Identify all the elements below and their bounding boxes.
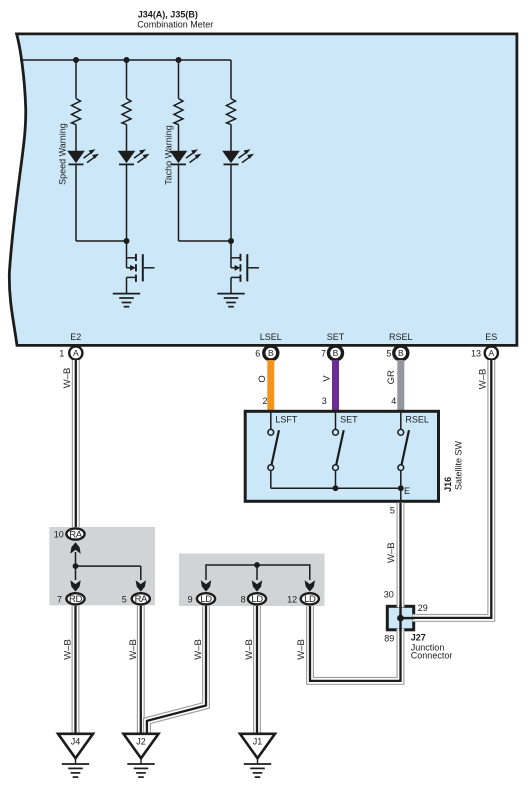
- svg-text:J27: J27: [411, 632, 426, 642]
- wire V (violet) from SET pin 7 to J16: [332, 360, 339, 412]
- arrow down into RD: [70, 580, 80, 591]
- terminal 8 LD: [248, 593, 266, 604]
- svg-text:9: 9: [188, 595, 193, 605]
- wire branch 3 upper: [178, 60, 180, 99]
- node branch 1: [73, 57, 79, 63]
- terminal 12 LD: [301, 593, 319, 604]
- arrow up into RA: [70, 542, 80, 553]
- wire W-B from J27 terminal 89 to connector 12 LD: [310, 606, 401, 681]
- svg-text:8: 8: [241, 595, 246, 605]
- wire RA to tee: [75, 552, 77, 566]
- svg-text:RA: RA: [135, 594, 148, 605]
- pin 1 connector A (E2): [69, 346, 82, 359]
- pin 7 connector B (SET): [329, 346, 343, 360]
- J16 satellite SW box: [245, 411, 438, 501]
- node SET common: [333, 485, 339, 491]
- svg-text:W–B: W–B: [478, 369, 489, 390]
- svg-text:B: B: [398, 348, 404, 358]
- svg-text:4: 4: [391, 396, 396, 406]
- svg-text:5: 5: [386, 348, 391, 358]
- svg-text:13: 13: [471, 348, 481, 358]
- wire tee down: [256, 565, 258, 580]
- wire branch 4 upper: [230, 60, 232, 99]
- LED branch 1 (speed warning): [67, 149, 99, 165]
- svg-text:RSEL: RSEL: [389, 332, 413, 342]
- wire branch 1 upper: [75, 60, 77, 99]
- svg-text:10: 10: [54, 530, 64, 540]
- svg-text:LD: LD: [304, 594, 316, 605]
- arrow down into RA: [136, 580, 146, 591]
- svg-text:W–B: W–B: [63, 639, 74, 660]
- svg-text:RA: RA: [69, 530, 82, 541]
- transistor Q1 (MOSFET, speed warning driver): [127, 241, 155, 293]
- pin 13 connector A (ES): [485, 346, 498, 359]
- svg-text:W–B: W–B: [386, 542, 397, 563]
- combination meter box J34(A), J35(B): [9, 34, 517, 346]
- wire tee horizontal: [76, 565, 141, 567]
- wire W-B from 8 LD to ground J1: [253, 606, 261, 734]
- wire W-B from 9 LD joining ground J2: [147, 606, 206, 734]
- svg-text:J2: J2: [136, 736, 146, 746]
- svg-text:A: A: [488, 348, 494, 358]
- node E common: [398, 485, 404, 491]
- ground (internal, Q1 source): [113, 294, 140, 307]
- svg-text:W–B: W–B: [244, 639, 255, 660]
- wire W-B from ES pin 13 to J27 terminal 29: [412, 360, 491, 618]
- wire down to 5 RA: [140, 566, 142, 580]
- wire branch 2 upper: [126, 60, 128, 99]
- wire branch 2 mid: [126, 125, 128, 152]
- wire switch common bus: [271, 487, 401, 489]
- svg-text:RD: RD: [69, 594, 82, 605]
- wire join branch 3-4: [179, 240, 232, 242]
- svg-text:5: 5: [122, 594, 127, 604]
- terminal 9 LD: [197, 593, 215, 604]
- gray connector block left (meter internal links): [49, 527, 155, 605]
- wire W-B from 7 RD to ground J4: [72, 606, 80, 734]
- arrow down into 9 LD: [201, 580, 211, 591]
- wire down to 7 RD: [75, 566, 77, 580]
- svg-text:7: 7: [57, 594, 62, 604]
- wire W-B from J16 E to J27 terminal 30: [397, 503, 405, 608]
- svg-text:J4: J4: [71, 736, 81, 746]
- ground J2: [124, 734, 159, 764]
- svg-text:5: 5: [390, 506, 395, 516]
- svg-text:LD: LD: [251, 594, 263, 605]
- ground (internal, Q2 source): [217, 294, 244, 307]
- wire branch 1 lower: [75, 164, 77, 241]
- terminal 7 RD: [66, 593, 84, 604]
- J27 internal pass-through and node: [399, 605, 401, 632]
- svg-text:30: 30: [384, 589, 394, 599]
- arrow down into 12 LD: [305, 580, 315, 591]
- wire E to box edge: [400, 488, 402, 502]
- svg-text:ES: ES: [485, 332, 497, 342]
- svg-text:J16: J16: [443, 477, 453, 492]
- svg-text:1: 1: [59, 348, 64, 358]
- wire branch 3 lower: [178, 164, 180, 241]
- svg-text:7: 7: [321, 348, 326, 358]
- svg-text:SET: SET: [327, 332, 345, 342]
- svg-text:2: 2: [262, 396, 267, 406]
- svg-text:3: 3: [322, 396, 327, 406]
- wire branch 1 mid: [75, 125, 77, 152]
- node branch 2: [124, 57, 130, 63]
- pin 6 connector B (LSEL): [264, 346, 278, 360]
- svg-text:W–B: W–B: [128, 639, 139, 660]
- wire W-B from 5 RA to ground J2: [137, 606, 145, 734]
- pin 5 connector B (RSEL): [394, 346, 408, 360]
- svg-text:W–B: W–B: [296, 639, 307, 660]
- resistor branch 3: [174, 99, 183, 125]
- arrow down into 8 LD: [252, 580, 262, 591]
- node junction 1-2: [124, 238, 130, 244]
- terminal 10 RA: [66, 528, 84, 539]
- svg-text:A: A: [73, 348, 79, 358]
- svg-text:LSEL: LSEL: [260, 332, 282, 342]
- svg-text:LD: LD: [200, 594, 212, 605]
- svg-text:Connector: Connector: [411, 651, 453, 661]
- LED branch 2: [118, 149, 150, 165]
- svg-text:O: O: [257, 375, 268, 382]
- svg-text:SET: SET: [340, 415, 358, 425]
- svg-text:Speed Warning: Speed Warning: [58, 123, 68, 185]
- svg-text:J34(A), J35(B): J34(A), J35(B): [138, 9, 198, 19]
- svg-text:6: 6: [255, 348, 260, 358]
- svg-text:W–B: W–B: [62, 368, 73, 389]
- resistor branch 2: [122, 99, 131, 125]
- svg-text:Satellite SW: Satellite SW: [453, 440, 463, 490]
- svg-text:LSFT: LSFT: [275, 415, 298, 425]
- node junction 3-4: [228, 238, 234, 244]
- resistor branch 1: [72, 99, 81, 125]
- svg-text:29: 29: [418, 603, 428, 613]
- svg-text:V: V: [321, 375, 332, 382]
- gray connector block right (meter internal links): [179, 554, 325, 607]
- ground J4: [58, 734, 93, 764]
- wire join branch 1-2: [76, 240, 127, 242]
- node branch 3: [176, 57, 182, 63]
- svg-text:12: 12: [287, 595, 297, 605]
- wire W-B from E2 pin 1 to connector RA: [72, 360, 80, 528]
- svg-text:Tacho Warning: Tacho Warning: [163, 125, 173, 185]
- wire O (orange) from LSEL pin 6 to J16: [267, 360, 274, 412]
- resistor branch 4: [227, 99, 236, 125]
- wire branch 3 mid: [178, 125, 180, 152]
- svg-text:RSEL: RSEL: [405, 415, 429, 425]
- svg-text:J1: J1: [253, 736, 263, 746]
- wire bus right block: [206, 565, 310, 580]
- LED branch 4: [222, 149, 254, 165]
- svg-text:89: 89: [384, 634, 394, 644]
- terminal 5 RA: [132, 593, 150, 604]
- svg-text:E: E: [404, 486, 410, 496]
- node tee right block: [254, 562, 260, 568]
- top bus wire: [20, 59, 231, 61]
- transistor Q2 (MOSFET, tacho warning driver): [231, 241, 259, 293]
- wire branch 2 lower: [126, 164, 128, 241]
- svg-text:B: B: [268, 348, 274, 358]
- J27 junction connector: [387, 606, 413, 630]
- wire branch 4 lower: [230, 164, 232, 241]
- LED branch 3 (tacho warning): [170, 149, 202, 165]
- svg-text:E2: E2: [70, 332, 81, 342]
- node tee left block: [73, 563, 79, 569]
- svg-text:Combination Meter: Combination Meter: [137, 19, 213, 29]
- svg-text:GR: GR: [386, 370, 397, 384]
- svg-text:B: B: [333, 348, 339, 358]
- wire branch 4 mid: [230, 125, 232, 152]
- ground J1: [240, 734, 275, 764]
- svg-text:W–B: W–B: [193, 639, 204, 660]
- wire GR (gray) from RSEL pin 5 to J16: [397, 360, 404, 412]
